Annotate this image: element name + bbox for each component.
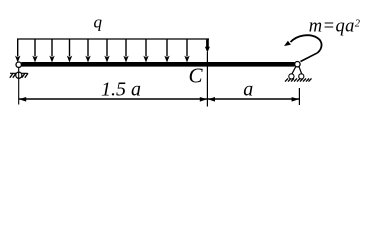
left support ground line <box>10 72 28 74</box>
moment arrowhead <box>284 41 291 46</box>
moment arc <box>291 35 322 53</box>
distributed load arrows <box>15 39 190 63</box>
dimension arrowheads <box>19 97 299 102</box>
dimension line <box>19 98 299 100</box>
distributed load top line <box>17 38 209 40</box>
right support hatching <box>285 78 312 81</box>
svg-text:a: a <box>243 79 253 101</box>
beam <box>21 62 294 67</box>
moment arc tail <box>301 53 318 62</box>
right extension line <box>298 88 300 105</box>
vertical line at C through beam to dimension line <box>206 52 208 107</box>
left support hatching <box>10 73 28 78</box>
right pin circle <box>295 61 300 66</box>
right roller circles <box>289 74 294 79</box>
left extension line <box>18 68 20 105</box>
left roller circle <box>16 72 22 78</box>
svg-text:m=qa2: m=qa2 <box>309 16 361 36</box>
svg-text:q: q <box>94 12 103 31</box>
svg-text:C: C <box>189 64 204 88</box>
right support legs <box>292 66 302 74</box>
bold end arrow of distributed load <box>205 39 210 53</box>
left pin circle <box>16 62 21 67</box>
svg-text:1.5 a: 1.5 a <box>101 79 141 101</box>
